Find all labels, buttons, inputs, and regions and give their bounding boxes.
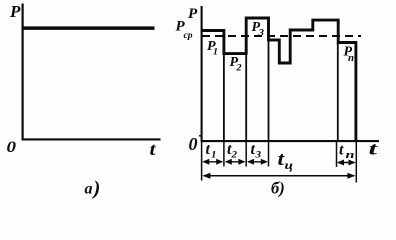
svg-text:1: 1	[211, 150, 217, 160]
svg-text:P: P	[9, 2, 21, 21]
svg-text:ср: ср	[184, 31, 193, 41]
svg-text:n: n	[346, 150, 355, 161]
svg-text:3: 3	[254, 150, 261, 160]
svg-text:б): б)	[271, 179, 285, 198]
svg-text:P: P	[188, 6, 198, 22]
svg-text:): )	[92, 178, 101, 200]
svg-text:2: 2	[230, 150, 237, 160]
svg-text:0: 0	[189, 134, 198, 154]
svg-text:1: 1	[213, 47, 218, 57]
svg-text:t: t	[150, 139, 157, 159]
svg-text:а: а	[85, 181, 93, 198]
svg-text:3: 3	[257, 28, 264, 38]
svg-text:t: t	[206, 141, 211, 158]
svg-text:n: n	[348, 53, 354, 64]
svg-text:0: 0	[7, 139, 17, 156]
svg-text:2: 2	[235, 63, 242, 73]
svg-text:ц: ц	[285, 160, 294, 172]
svg-text:t: t	[339, 142, 344, 159]
